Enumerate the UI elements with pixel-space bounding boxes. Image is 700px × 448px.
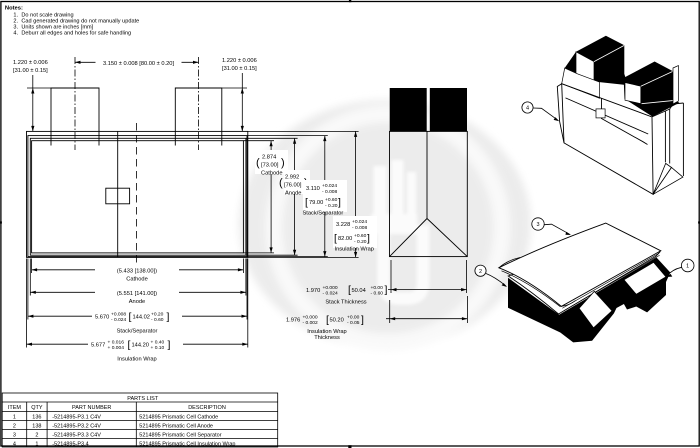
svg-text:+ 0.10: + 0.10 — [151, 345, 165, 351]
svg-text:5.670: 5.670 — [95, 314, 109, 320]
front view insulation wrap outline — [27, 131, 248, 257]
svg-text:4: 4 — [526, 106, 529, 112]
exploded separator corner curl — [561, 301, 575, 307]
svg-text:+0.000: +0.000 — [323, 285, 338, 291]
iso tab top edge white seams — [594, 46, 677, 104]
svg-text:Insulation Wrap: Insulation Wrap — [335, 246, 374, 252]
svg-text:Deburr all edges and holes for: Deburr all edges and holes for safe hand… — [21, 31, 131, 37]
iso wrap outline lines — [557, 84, 683, 195]
top border fold tick — [349, 0, 351, 2]
svg-text:4: 4 — [13, 441, 16, 447]
svg-text:]: ] — [385, 284, 388, 296]
svg-text:(: ( — [256, 157, 260, 169]
notes block — [5, 6, 139, 37]
front view stack/separator outline — [28, 136, 247, 257]
dimension 1.976 insulation wrap thickness — [286, 296, 467, 341]
svg-text:1: 1 — [13, 414, 16, 420]
svg-text:+ 0.004: + 0.004 — [108, 345, 125, 351]
svg-text:Notes:: Notes: — [5, 6, 23, 12]
dimension 2.992 anode height — [246, 138, 310, 255]
svg-text:]: ] — [338, 196, 341, 208]
svg-text:3.228: 3.228 — [336, 222, 350, 228]
svg-text:]: ] — [167, 311, 170, 323]
svg-text:): ) — [281, 157, 285, 169]
iso wrap front panel white fill — [562, 84, 653, 195]
dimension 1.970 stack thickness — [306, 260, 467, 305]
svg-text:[31.00 ± 0.15]: [31.00 ± 0.15] — [222, 66, 257, 72]
dimension 5.677 insulation wrap width — [27, 259, 248, 363]
side view left tab (black) — [390, 88, 427, 131]
svg-text:ITEM: ITEM — [8, 405, 22, 411]
exploded right white tab — [624, 262, 666, 294]
balloon 4 — [522, 102, 559, 121]
svg-text:+0.000: +0.000 — [303, 314, 318, 320]
svg-text:Stack Thickness: Stack Thickness — [325, 299, 366, 305]
svg-text:Stack/Separator: Stack/Separator — [117, 328, 158, 334]
exploded separator page lines — [562, 253, 659, 310]
svg-text:- 0.024: - 0.024 — [111, 317, 127, 323]
svg-text:1: 1 — [35, 441, 38, 447]
svg-text:1.976: 1.976 — [286, 317, 300, 323]
svg-text:79.00: 79.00 — [309, 200, 323, 206]
exploded cathode black block — [508, 258, 670, 343]
iso left tab lit face — [576, 52, 594, 86]
front view anode outline — [30, 138, 246, 255]
svg-text:+0.60: +0.60 — [325, 197, 338, 203]
exploded anode sheet — [508, 240, 660, 314]
balloon 2 — [475, 265, 507, 287]
svg-text:[76.00]: [76.00] — [284, 183, 302, 189]
side view wrap fold left diagonal — [390, 219, 428, 257]
svg-text:3.150 ± 0.008 [80.00 ± 0.20]: 3.150 ± 0.008 [80.00 ± 0.20] — [103, 61, 174, 67]
svg-text:- 0.60: - 0.60 — [151, 317, 164, 323]
front view left tab centerline — [74, 57, 76, 150]
svg-text:2.874: 2.874 — [262, 155, 276, 161]
svg-text:PART NUMBER: PART NUMBER — [72, 405, 111, 411]
svg-text:]: ] — [168, 339, 171, 351]
parts list outer box — [2, 393, 278, 447]
svg-text:+0.024: +0.024 — [322, 183, 337, 189]
dimension 2.874 cathode height — [243, 141, 288, 253]
svg-text:- 0.20: - 0.20 — [354, 239, 367, 245]
svg-text:3: 3 — [536, 222, 539, 228]
svg-text:+0.008: +0.008 — [111, 311, 126, 317]
svg-text:[: [ — [129, 311, 132, 323]
svg-text:2.992: 2.992 — [285, 175, 299, 181]
exploded separator curled corner line — [499, 258, 520, 268]
svg-text:2: 2 — [479, 269, 482, 275]
iso wrap tape rectangle — [596, 109, 605, 118]
svg-text:136: 136 — [32, 414, 41, 420]
svg-text:(: ( — [279, 177, 283, 189]
svg-text:5214895 Prismatic Cell Separat: 5214895 Prismatic Cell Separator — [139, 432, 221, 438]
iso right tab lit face — [625, 83, 641, 104]
svg-text:50.04: 50.04 — [352, 288, 366, 294]
iso stack front white band — [562, 68, 600, 98]
svg-text:1.220 ± 0.006: 1.220 ± 0.006 — [13, 60, 48, 66]
svg-text:+0.20: +0.20 — [151, 311, 164, 317]
svg-text:+0.60: +0.60 — [354, 233, 367, 239]
svg-text:Units shown are inches [mm]: Units shown are inches [mm] — [21, 24, 93, 30]
svg-text:-5214895-P3.2 C4V: -5214895-P3.2 C4V — [52, 423, 101, 429]
svg-text:5214895 Prismatic Cell Insulat: 5214895 Prismatic Cell Insulation Wrap — [139, 441, 235, 447]
svg-text:Cathode: Cathode — [261, 171, 283, 177]
svg-text:+ 0.40: + 0.40 — [151, 339, 165, 345]
iso wrap bottom beak — [653, 163, 671, 194]
svg-text:144.02: 144.02 — [133, 314, 150, 320]
svg-text:-5214895-P3.4: -5214895-P3.4 — [52, 441, 88, 447]
right border fold tick — [698, 221, 700, 223]
svg-text:5214895 Prismatic Cell Cathode: 5214895 Prismatic Cell Cathode — [139, 414, 218, 420]
svg-text:3.110: 3.110 — [306, 186, 320, 192]
dimension 3.228 insulation wrap height — [248, 131, 377, 257]
svg-text:- 0.002: - 0.002 — [303, 320, 319, 326]
front view cathode outline — [32, 141, 244, 253]
svg-text:1.970: 1.970 — [306, 288, 320, 294]
svg-text:1: 1 — [686, 264, 689, 270]
svg-text:[: [ — [305, 196, 308, 208]
svg-text:+0.00: +0.00 — [347, 314, 360, 320]
svg-text:5214895 Prismatic Cell Anode: 5214895 Prismatic Cell Anode — [139, 423, 213, 429]
svg-text:(5.551 [141.00]): (5.551 [141.00]) — [117, 291, 157, 297]
svg-text:138: 138 — [32, 423, 41, 429]
svg-text:2: 2 — [35, 432, 38, 438]
svg-text:PARTS LIST: PARTS LIST — [127, 396, 159, 402]
watermark logo circle — [239, 100, 531, 348]
iso right back white strip — [673, 66, 678, 105]
dimension 1.220 left tab — [13, 60, 51, 131]
left border fold tick — [0, 221, 2, 223]
svg-text:4.: 4. — [13, 31, 18, 37]
svg-text:82.00: 82.00 — [338, 236, 352, 242]
front view vertical centerline — [136, 123, 138, 264]
svg-text:+0.00: +0.00 — [371, 285, 384, 291]
side view wrap fold center line — [426, 131, 428, 218]
svg-text:[73.00]: [73.00] — [261, 163, 279, 169]
svg-text:- 0.008: - 0.008 — [322, 189, 338, 195]
svg-text:-5214895-P3.3 C4V: -5214895-P3.3 C4V — [52, 432, 101, 438]
exploded separator sheet — [499, 223, 661, 306]
svg-text:+ 0.016: + 0.016 — [108, 339, 125, 345]
exploded anode fold line lower-left — [502, 271, 561, 307]
dimension 3.150 tab pitch — [75, 58, 199, 67]
svg-text:Thickness: Thickness — [314, 335, 340, 341]
dimension 1.220 right tab — [222, 58, 257, 131]
dimension 5.670 stack/separator width — [28, 259, 247, 335]
svg-text:2: 2 — [13, 423, 16, 429]
svg-text:3: 3 — [13, 432, 16, 438]
svg-text:+0.024: +0.024 — [352, 219, 367, 225]
svg-text:- 0.05: - 0.05 — [347, 320, 360, 326]
iso cell black top and tabs — [565, 36, 680, 117]
svg-text:]: ] — [367, 232, 370, 244]
svg-text:QTY: QTY — [31, 405, 43, 411]
svg-text:3.: 3. — [13, 24, 18, 30]
front view tape rectangle — [106, 188, 130, 204]
svg-text:Insulation Wrap: Insulation Wrap — [117, 356, 156, 362]
svg-text:- 0.024: - 0.024 — [323, 291, 339, 297]
svg-text:Cathode: Cathode — [126, 277, 148, 283]
svg-text:50.20: 50.20 — [330, 317, 344, 323]
svg-text:- 0.20: - 0.20 — [325, 203, 338, 209]
watermark castle logo shapes — [371, 160, 423, 299]
svg-text:(5.433 [138.00]): (5.433 [138.00]) — [117, 268, 157, 274]
front view left tab — [51, 88, 99, 146]
front view wrap seam line — [117, 131, 119, 257]
svg-text:Anode: Anode — [285, 191, 301, 197]
svg-text:[31.00 ± 0.15]: [31.00 ± 0.15] — [13, 68, 48, 74]
exploded center white tab — [579, 291, 612, 328]
side view wrap fold right diagonal — [427, 219, 467, 257]
svg-text:Anode: Anode — [129, 299, 145, 305]
svg-text:[: [ — [128, 339, 131, 351]
svg-text:Stack/Separator: Stack/Separator — [303, 210, 344, 216]
dimension 5.433 cathode width — [32, 259, 244, 283]
svg-text:144.20: 144.20 — [132, 342, 149, 348]
svg-text:- 0.60: - 0.60 — [371, 291, 384, 297]
svg-text:1.220 ± 0.006: 1.220 ± 0.006 — [222, 58, 257, 64]
side view right tab (black) — [430, 88, 467, 131]
dimension 5.551 anode width — [30, 259, 246, 306]
front view right tab — [175, 88, 222, 146]
svg-text:[: [ — [334, 232, 337, 244]
balloon 1 — [666, 259, 694, 277]
side view outline — [390, 131, 468, 256]
svg-text:-5214895-P3.1 C4V: -5214895-P3.1 C4V — [52, 414, 101, 420]
svg-text:]: ] — [361, 314, 364, 326]
dimension 3.110 stack/separator height — [247, 136, 347, 257]
svg-text:DESCRIPTION: DESCRIPTION — [188, 405, 226, 411]
svg-text:5.677: 5.677 — [91, 342, 105, 348]
svg-text:- 0.008: - 0.008 — [352, 225, 368, 231]
bottom border fold tick — [348, 445, 351, 448]
balloon 3 — [532, 218, 571, 235]
front view right tab centerline — [198, 57, 200, 150]
